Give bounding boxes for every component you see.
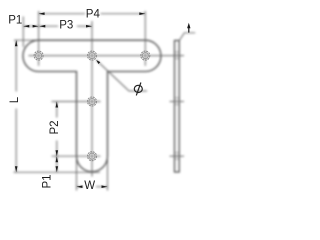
svg-text:P1: P1 [41,174,53,188]
svg-text:P2: P2 [49,120,61,134]
svg-text:L: L [9,96,21,103]
svg-text:P3: P3 [59,20,73,32]
svg-text:W: W [84,180,95,192]
svg-text:P4: P4 [86,9,101,21]
svg-text:P1: P1 [8,14,22,26]
